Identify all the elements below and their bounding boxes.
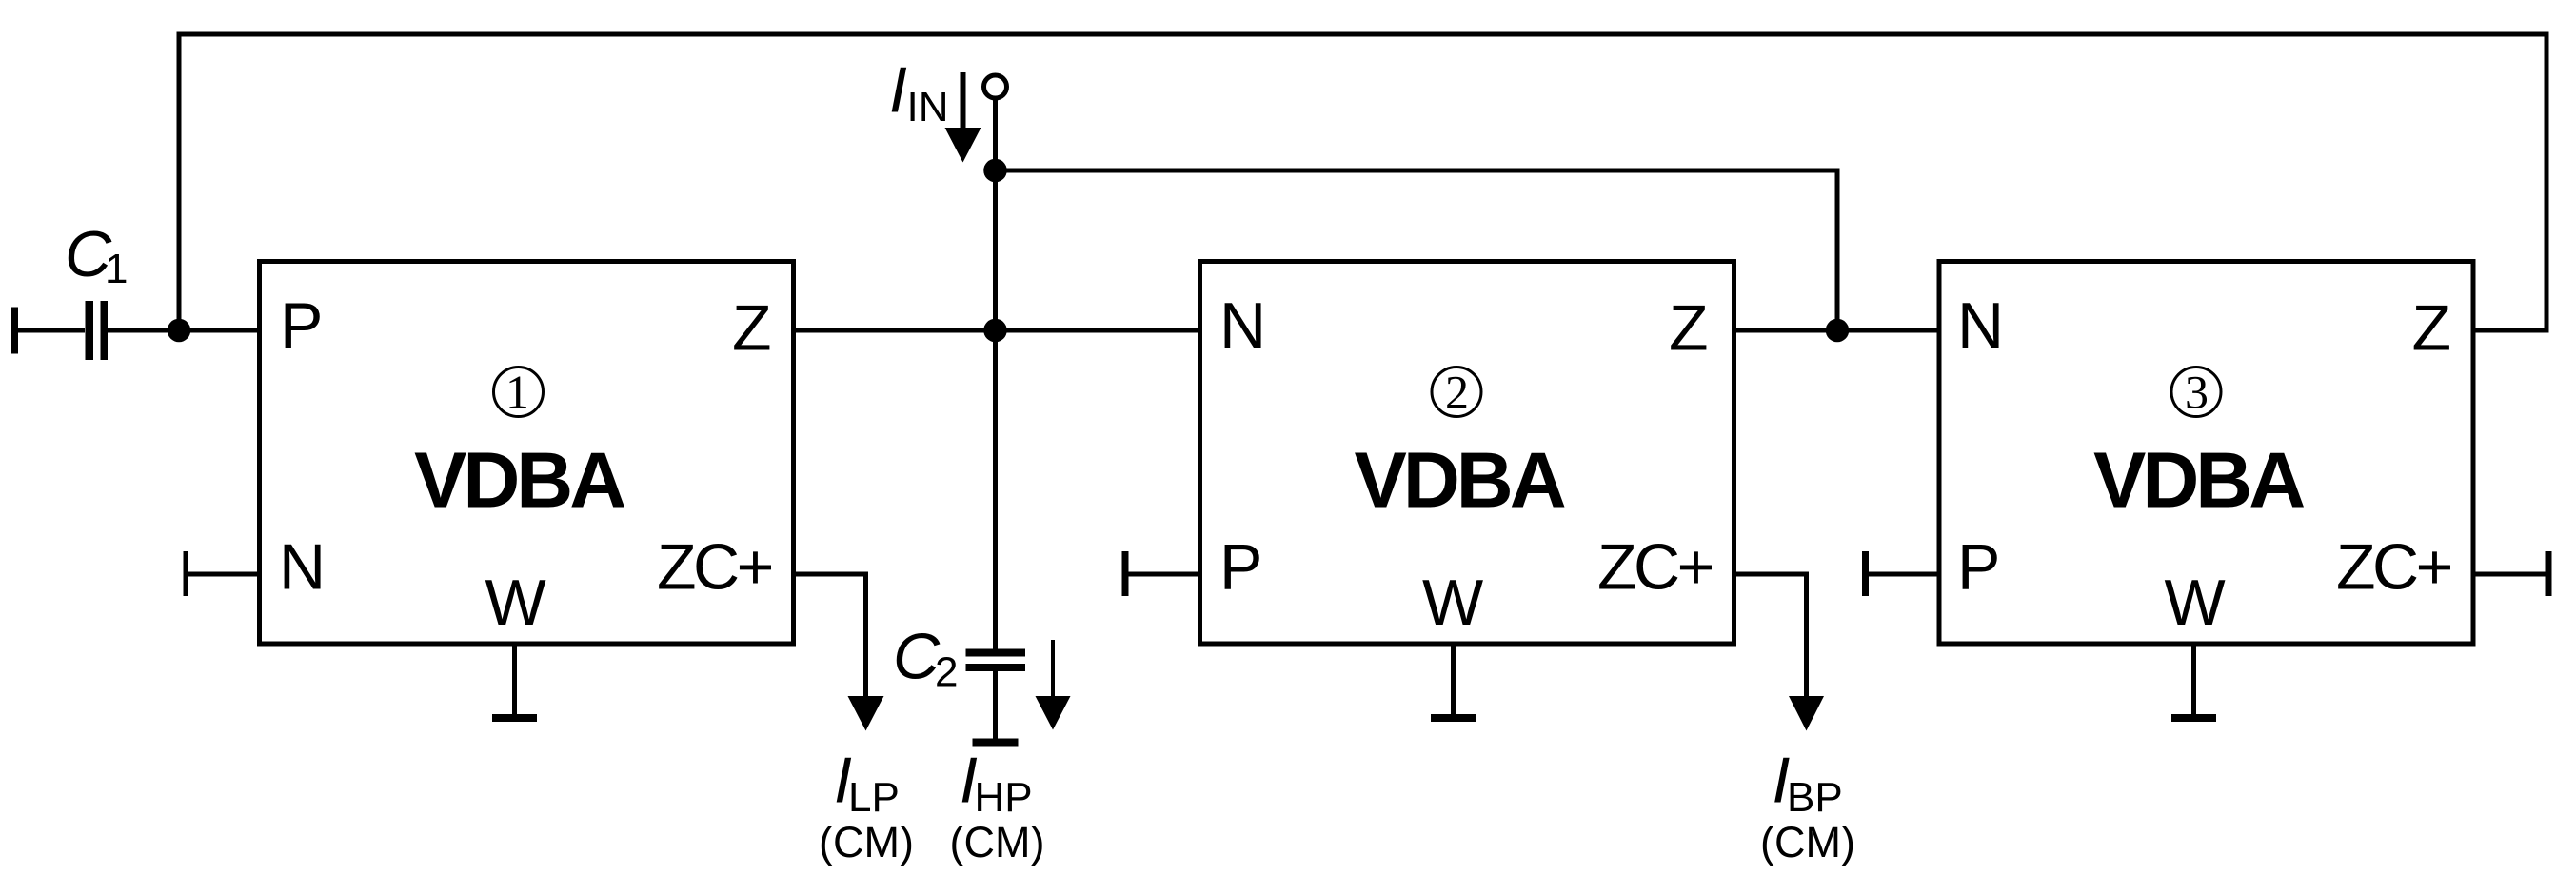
wire: ZC+3 pin to right terminal bar <box>2475 572 2546 577</box>
node: Z1/C2 junction <box>983 319 1007 343</box>
svg-text:N: N <box>279 531 326 604</box>
node: C1/P1/feedback junction <box>168 319 191 343</box>
wire: ZC+2 pin down to BP arrow <box>1734 574 1807 698</box>
ground terminal bar under C2 <box>973 739 1019 747</box>
svg-text:HP: HP <box>975 774 1033 821</box>
arrowhead IIN <box>945 128 981 163</box>
wire: top feedback loop from Z3 up over to P1 node <box>179 34 2546 330</box>
wire: Z2 pin to N3 pin <box>1734 328 1939 333</box>
op-block VDBA 1 <box>260 262 794 645</box>
terminal bar at C1 input <box>11 308 18 354</box>
svg-text:VDBA: VDBA <box>414 436 624 525</box>
wire: C1 to P pin of VDBA 1 <box>108 328 259 333</box>
op-block VDBA 3 <box>1939 262 2473 645</box>
terminal bar at P3 <box>1862 551 1869 596</box>
svg-text:(CM): (CM) <box>1760 818 1855 866</box>
svg-text:1: 1 <box>505 366 529 419</box>
svg-text:P: P <box>280 289 323 362</box>
ground bar W2 <box>1431 714 1476 722</box>
designator circle 1 <box>494 368 544 417</box>
wire: N1 terminal bar to N pin of VDBA 1 <box>188 572 259 577</box>
ground stub W1 <box>512 644 517 718</box>
svg-text:P: P <box>1957 531 2000 604</box>
terminal bar at ZC+3 <box>2546 551 2552 596</box>
wire: input node vertical down to capacitor C2 <box>993 99 998 650</box>
ground bar W3 <box>2171 714 2216 722</box>
svg-text:Z: Z <box>1669 292 1709 365</box>
svg-text:P: P <box>1219 531 1262 604</box>
svg-text:Z: Z <box>732 292 772 365</box>
wire: Z1 pin to N2 pin <box>794 328 1199 333</box>
wire: C2 bottom plate to ground terminal <box>993 671 998 742</box>
arrowhead IHP <box>1036 696 1071 730</box>
current arrow IHP shaft <box>1051 640 1055 698</box>
svg-text:W: W <box>1422 567 1483 639</box>
designator circle 2 <box>1432 368 1481 417</box>
capacitor C2 bottom plate <box>966 664 1026 671</box>
svg-text:W: W <box>485 567 546 639</box>
node: input/inner feedback junction <box>983 159 1007 183</box>
terminal bar at N1 <box>184 551 188 596</box>
ground bar W1 <box>492 714 537 722</box>
capacitor C1 right plate <box>101 301 109 360</box>
capacitor C1 left plate <box>86 301 94 360</box>
svg-text:ZC+: ZC+ <box>2336 531 2451 604</box>
svg-text:Z: Z <box>2412 292 2452 365</box>
wire: inner feedback from input node to N3 node <box>996 170 1838 330</box>
op-block VDBA 2 <box>1200 262 1734 645</box>
svg-text:3: 3 <box>2185 366 2209 419</box>
svg-text:IN: IN <box>907 84 949 130</box>
wire: input terminal bar to capacitor C1 <box>18 328 85 333</box>
input terminal circle IIN <box>984 75 1007 98</box>
svg-text:VDBA: VDBA <box>2093 436 2304 525</box>
terminal bar at P2 <box>1122 551 1129 596</box>
arrowhead ILP <box>848 696 884 731</box>
designator circle 3 <box>2171 368 2221 417</box>
svg-text:I: I <box>889 54 907 127</box>
svg-text:LP: LP <box>848 774 900 821</box>
svg-text:1: 1 <box>105 246 128 292</box>
svg-text:N: N <box>1219 289 1266 362</box>
svg-text:C: C <box>893 621 941 693</box>
svg-text:ZC+: ZC+ <box>657 531 772 604</box>
node: Z2/N3 junction <box>1826 319 1850 343</box>
svg-text:VDBA: VDBA <box>1355 436 1565 525</box>
wire: P2 terminal bar to P pin of VDBA 2 <box>1129 572 1200 577</box>
wire: P3 terminal bar to P pin of VDBA 3 <box>1869 572 1939 577</box>
ground stub W3 <box>2191 644 2196 718</box>
capacitor C2 top plate <box>966 649 1026 657</box>
wire: ZC+1 pin down to LP arrow <box>794 574 866 698</box>
svg-text:(CM): (CM) <box>819 818 914 866</box>
arrowhead IBP <box>1789 696 1824 731</box>
svg-text:2: 2 <box>935 649 958 696</box>
svg-text:(CM): (CM) <box>950 818 1045 866</box>
svg-text:BP: BP <box>1787 774 1843 821</box>
svg-text:ZC+: ZC+ <box>1597 531 1713 604</box>
svg-text:W: W <box>2165 567 2226 639</box>
svg-text:2: 2 <box>1445 366 1469 419</box>
current arrow IIN shaft <box>961 72 966 133</box>
ground stub W2 <box>1451 644 1456 718</box>
svg-text:N: N <box>1957 289 2004 362</box>
